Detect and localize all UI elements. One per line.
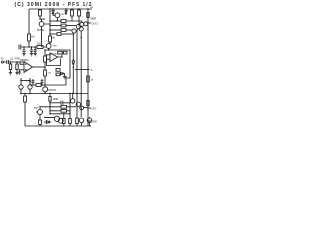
- input terminal: [2, 61, 4, 63]
- wire x77 rail: [77, 29, 78, 118]
- svg-text:(C) 30MI 2008 - PF5 1/2: (C) 30MI 2008 - PF5 1/2: [15, 2, 92, 8]
- wire x73 rail: [72, 33, 75, 61]
- svg-text:+U: +U: [90, 6, 93, 9]
- wire U2 out: [58, 56, 63, 58]
- wire y50: [45, 50, 70, 78]
- transistor Q14: [58, 118, 63, 123]
- wire mid rail y94: [20, 93, 88, 95]
- label TP2: [87, 120, 88, 121]
- svg-text:A: A: [91, 68, 93, 72]
- svg-text:TR2: TR2: [61, 14, 66, 16]
- resistor R23: [69, 119, 72, 124]
- ground: [9, 73, 12, 75]
- transistor Q9: [43, 87, 48, 92]
- wire y34: [50, 33, 57, 35]
- transistor Q4: [76, 25, 80, 29]
- resistor R4: [28, 34, 31, 41]
- resistor R21: [61, 109, 67, 112]
- resistor Rf2: [64, 51, 68, 54]
- node base line: [28, 46, 29, 47]
- wire y21: [50, 20, 61, 22]
- diode D5: [44, 121, 51, 124]
- capacitor C10: [61, 101, 71, 105]
- transistor Q1: [39, 22, 44, 27]
- ground: [15, 73, 18, 75]
- wire y69.5 to A: [75, 69, 90, 71]
- transistor Q4c: [79, 27, 83, 31]
- wire x70 drop: [69, 94, 71, 119]
- resistor x77 bottom: [76, 118, 79, 124]
- wire y117.5: [44, 117, 55, 119]
- wire base link: [21, 80, 30, 82]
- resistor R2 to ground: [10, 61, 11, 62]
- capacitor C12: [79, 118, 84, 123]
- resistor R15 down: [44, 67, 46, 70]
- svg-text:10k: 10k: [48, 73, 52, 75]
- diode D3 on x73: [72, 61, 75, 68]
- ground: [34, 54, 37, 56]
- op-amp U2: [50, 53, 58, 62]
- label TP: [87, 107, 88, 108]
- wire x88 rail: [87, 9, 89, 126]
- wire noninv input: [20, 62, 24, 64]
- resistor R25: [61, 105, 67, 108]
- wire bus x50 low: [49, 101, 51, 114]
- resistor R3 to ground: [16, 61, 17, 62]
- wire left drop: [28, 9, 30, 34]
- resistor R17 on bus: [49, 94, 51, 97]
- capacitor C2 plates: [19, 45, 21, 50]
- capacitor C4 to ground: [30, 47, 33, 54]
- transistor Q11: [71, 99, 75, 103]
- svg-text:NE5532: NE5532: [50, 54, 59, 56]
- ground: [63, 77, 66, 79]
- transistor Q2: [55, 13, 60, 18]
- wire y102.8: [50, 102, 61, 104]
- ground: [30, 54, 33, 56]
- capacitor C3 to ground: [23, 47, 26, 54]
- resistor R22: [63, 114, 65, 119]
- capacitor C5 to ground: [34, 47, 37, 54]
- svg-text:OUT2: OUT2: [92, 22, 99, 25]
- resistor R16: [36, 84, 41, 87]
- wire y25.5: [50, 25, 61, 27]
- wire y30: [50, 29, 61, 31]
- transistor Q13: [54, 116, 59, 121]
- wire x81 rail: [80, 31, 82, 117]
- resistor R1 on rail: [39, 10, 42, 16]
- ground: [18, 72, 21, 74]
- wire y113.8: [50, 113, 70, 115]
- svg-text:680R: 680R: [91, 17, 97, 20]
- resistor R10: [57, 33, 61, 36]
- lower cluster boxes: [56, 69, 60, 72]
- resistor R6 up: [44, 62, 46, 67]
- resistor R7: [61, 20, 66, 23]
- label out2: [87, 22, 88, 23]
- wire bus x50: [49, 9, 51, 36]
- wire y85: [31, 84, 36, 86]
- wire y106.8: [40, 106, 61, 108]
- svg-text:100R: 100R: [53, 98, 59, 101]
- transistor Q12b: [80, 106, 84, 110]
- svg-text:1M: 1M: [31, 36, 34, 39]
- wire y47 line: [21, 46, 37, 48]
- transistor Q7: [19, 85, 23, 89]
- svg-text:10k: 10k: [51, 37, 56, 40]
- feedback box: [47, 55, 61, 66]
- svg-text:BD139: BD139: [49, 89, 57, 92]
- LED D2 on rail: [65, 9, 67, 15]
- transistor Q10: [39, 106, 41, 109]
- resistor R11 on rail: [71, 10, 74, 16]
- svg-text:GND: GND: [92, 120, 98, 123]
- svg-text:2k2: 2k2: [37, 43, 42, 46]
- capacitor C8: [32, 79, 35, 85]
- wire op-amp out: [33, 66, 46, 68]
- capacitor C9: [41, 79, 44, 85]
- resistor x50: [49, 35, 51, 37]
- resistor R12 on rail: [78, 10, 81, 16]
- wire y110.8: [50, 110, 61, 112]
- op-amp U1: [24, 62, 33, 73]
- capacitor C13: [87, 118, 92, 123]
- resistor R5: [37, 46, 43, 49]
- resistor R19: [39, 120, 42, 125]
- svg-text:4k7: 4k7: [29, 81, 34, 84]
- resistor R14 on x88: [87, 76, 90, 82]
- resistor R8: [61, 24, 66, 27]
- diode D1: [52, 9, 55, 15]
- svg-text:C1: C1: [10, 58, 14, 61]
- resistor Rf1: [58, 51, 63, 54]
- svg-text:IN: IN: [1, 58, 4, 61]
- transistor Q5: [84, 22, 88, 26]
- svg-text:TR7: TR7: [34, 107, 39, 110]
- capacitor C1: [4, 60, 25, 64]
- transistor Q6: [46, 44, 51, 49]
- transistor Q3: [72, 29, 76, 33]
- wire top rail +V: [29, 8, 92, 10]
- transistor Q8: [28, 85, 32, 89]
- svg-text:NE5534: NE5534: [20, 59, 29, 62]
- resistor R9: [61, 29, 66, 32]
- diode D4: [61, 72, 65, 76]
- resistor R13 on x88: [87, 13, 89, 18]
- svg-text:1k: 1k: [91, 79, 94, 82]
- resistor R18 x25: [24, 94, 26, 97]
- transistor Q12: [76, 102, 80, 106]
- svg-text:BC550: BC550: [37, 29, 45, 32]
- wire inv input: [20, 70, 25, 72]
- wire bottom rail: [25, 125, 91, 127]
- svg-text:OUT: OUT: [92, 107, 98, 110]
- resistor R24 x88: [87, 101, 89, 106]
- svg-text:TR3: TR3: [53, 46, 58, 48]
- ground: [22, 54, 25, 56]
- transistor Q4b: [80, 22, 84, 26]
